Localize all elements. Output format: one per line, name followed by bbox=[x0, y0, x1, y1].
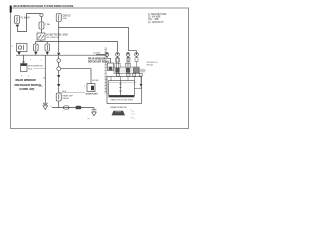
wires into box bbox=[111, 77, 128, 82]
svg-text:FL MAIN: FL MAIN bbox=[21, 17, 30, 20]
wire drop to third component bbox=[46, 42, 48, 45]
relay dark square col2 bbox=[115, 68, 119, 73]
wire right pair into box bbox=[134, 76, 140, 85]
wires row1 to cluster bbox=[118, 56, 129, 58]
component box in cluster bbox=[107, 56, 111, 63]
arrows main column lower bbox=[58, 71, 60, 75]
wire branch down to meter bbox=[23, 55, 25, 64]
branch label line y92.5 bbox=[59, 92, 85, 94]
connector rail bbox=[16, 54, 105, 56]
wire right inner bbox=[140, 77, 142, 85]
wire to ground junction bbox=[58, 101, 60, 108]
page border bbox=[11, 8, 189, 129]
rear window icon bbox=[112, 111, 126, 116]
relay right stub bbox=[140, 69, 146, 71]
svg-text:DEFOGGER SWITCH: DEFOGGER SWITCH bbox=[15, 83, 42, 87]
connector circle top bbox=[40, 13, 43, 16]
label line left ground bbox=[34, 67, 46, 69]
connector arrow below FL bbox=[16, 25, 20, 28]
svg-text:20A: 20A bbox=[63, 17, 67, 20]
third component box bbox=[45, 44, 50, 51]
fusible link FL MAIN bbox=[15, 16, 20, 24]
wires cluster doubled col2 bbox=[117, 57, 119, 74]
relay upper rect col3 bbox=[125, 63, 130, 67]
arrow main column bbox=[57, 53, 60, 56]
wire rail3 from ignition switch bbox=[41, 40, 118, 52]
svg-text:7.5A: 7.5A bbox=[45, 23, 50, 26]
ignition switch box bbox=[37, 33, 45, 40]
connector circle main 2 bbox=[57, 67, 61, 71]
svg-text:DEFOGGER RELAY: DEFOGGER RELAY bbox=[88, 61, 110, 64]
svg-text:RELAY: RELAY bbox=[62, 97, 69, 100]
connector circle x128 bbox=[126, 53, 130, 57]
inline connector oval open bbox=[64, 106, 70, 109]
connector circle x107 bbox=[105, 53, 109, 57]
tick mark left bottom bbox=[88, 118, 90, 120]
svg-text:REAR WINDOW: REAR WINDOW bbox=[88, 58, 106, 61]
left relay box bbox=[17, 44, 28, 52]
small squares below cluster bbox=[116, 73, 119, 76]
svg-text:NOISE: NOISE bbox=[92, 80, 99, 82]
connector circle main 1 bbox=[57, 59, 61, 63]
wire left ground vertical bbox=[44, 55, 46, 103]
svg-text:REAR DEFOGGER WIRE: REAR DEFOGGER WIRE bbox=[111, 98, 134, 101]
feeder wire to circle 1 bbox=[96, 53, 105, 55]
svg-text:REAR WINDOW DEFOGGER SYSTEM WI: REAR WINDOW DEFOGGER SYSTEM WIRING DIAGR… bbox=[13, 5, 73, 8]
fuse GAUGE upper bbox=[39, 22, 44, 29]
svg-text:NOISE FILTER: NOISE FILTER bbox=[86, 94, 98, 96]
arrow fuse to rail bbox=[34, 52, 37, 55]
relay gray block bbox=[133, 68, 139, 73]
meter component bbox=[21, 62, 28, 72]
connector circle x117.5 bbox=[116, 53, 120, 57]
relay dark square col3 bbox=[126, 68, 130, 73]
relay band outline bbox=[114, 67, 140, 74]
rear window defogger box bbox=[107, 77, 142, 104]
hatched pin strip bbox=[105, 48, 107, 93]
svg-text:REAR WINDOW: REAR WINDOW bbox=[111, 106, 128, 109]
svg-text:(4) : GROUND PT: (4) : GROUND PT bbox=[148, 22, 164, 24]
svg-text:W-B: W-B bbox=[62, 91, 67, 93]
wire rail1 bbox=[59, 22, 129, 51]
fuse GAUGE row bbox=[34, 44, 39, 51]
branch wire bottom bbox=[52, 107, 94, 109]
noise filter box bbox=[87, 84, 95, 92]
fuse DEFOG bbox=[56, 14, 61, 22]
svg-text:W-B: W-B bbox=[28, 69, 33, 71]
wires cluster doubled col3 bbox=[127, 57, 129, 74]
relay upper rect col2 bbox=[115, 63, 120, 67]
arrow third comp to rail bbox=[46, 52, 49, 55]
pin rect x136.5 bbox=[135, 58, 138, 62]
branch wire to noise filter bbox=[61, 69, 91, 84]
arrow left box to rail bbox=[18, 52, 21, 55]
relay coil box bbox=[56, 93, 61, 101]
svg-text:IG1 (DEFOG): IG1 (DEFOG) bbox=[46, 37, 59, 39]
connector circle x136.5 bbox=[135, 53, 139, 57]
ground G2 bbox=[43, 103, 48, 109]
wire circle to fuse bbox=[41, 17, 43, 22]
tick on ground wire bbox=[43, 77, 45, 79]
wire fuse to ignition switch bbox=[41, 29, 43, 33]
svg-text:RELAY: RELAY bbox=[147, 64, 154, 67]
svg-text:[COMB. SW]: [COMB. SW] bbox=[20, 88, 35, 91]
inline connector oval dark bbox=[76, 106, 82, 110]
svg-text:REAR WINDOW: REAR WINDOW bbox=[16, 78, 37, 82]
defogger grid bbox=[109, 81, 135, 96]
wire main column bbox=[58, 28, 60, 53]
connector pin rect col2 bbox=[116, 58, 120, 62]
wire from FL to riser bbox=[17, 14, 40, 32]
svg-text:DEFOGGER IND: DEFOGGER IND bbox=[28, 66, 43, 68]
tee split rail1 bbox=[129, 51, 137, 53]
pin rect x128.5 bbox=[127, 58, 130, 62]
title bbox=[10, 6, 12, 13]
defogger grid bus bar bbox=[109, 95, 135, 97]
svg-text:W-B: W-B bbox=[39, 86, 44, 88]
wire rail3 left branch bbox=[36, 42, 41, 45]
ground G1 bbox=[92, 108, 97, 116]
